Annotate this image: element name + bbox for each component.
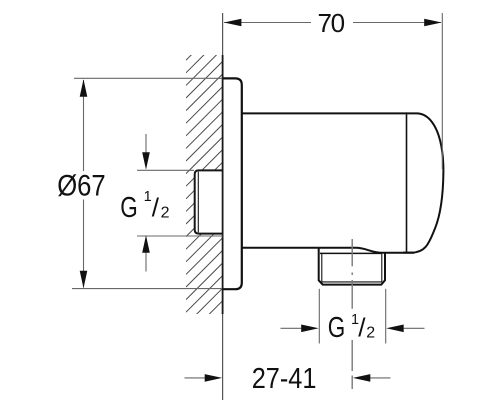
svg-text:27-41: 27-41 [252,363,317,395]
outlet union nut G1/2 [319,248,385,285]
svg-text:70: 70 [318,8,346,38]
Ø67 up / down [80,79,88,97]
bottom G1/2 arrow tails [281,327,308,329]
wall hatching [186,24,223,350]
wall front face line [222,13,224,400]
center line of outlet (dash-dot) [351,239,353,389]
arrowheads [80,19,442,382]
bottom G1/2 right-pointing / left-pointing [301,325,319,333]
svg-text:2: 2 [161,204,170,221]
27-41 arrow tails [185,377,211,379]
svg-text:/: / [358,312,366,342]
flange (escutcheon) [223,78,242,289]
70 left / right [224,19,242,27]
Ø67 ext lines [74,77,222,79]
svg-text:G: G [120,192,138,224]
svg-text:/: / [152,193,160,223]
left G1/2 arrow tails [145,134,147,157]
inlet nipple G1/2 (back, through wall) [195,170,223,233]
cap joint line [406,114,408,252]
bottom G1/2 ext lines [318,289,320,344]
svg-text:1: 1 [144,189,152,205]
70: right extension line [441,13,443,169]
27-41 arrows [205,374,223,382]
end cap outline [403,113,443,252]
body top edge [242,112,407,114]
70 dim line segments [224,22,311,24]
left G1/2 ext lines [137,169,194,171]
boss over outlet + cap bottom run [319,248,415,253]
svg-text:Ø67: Ø67 [57,170,105,203]
body bottom edge [242,247,319,249]
svg-text:2: 2 [366,324,375,341]
left G1/2 down / up [142,152,150,170]
Ø67 dim line [83,80,85,171]
svg-text:G: G [328,312,346,344]
